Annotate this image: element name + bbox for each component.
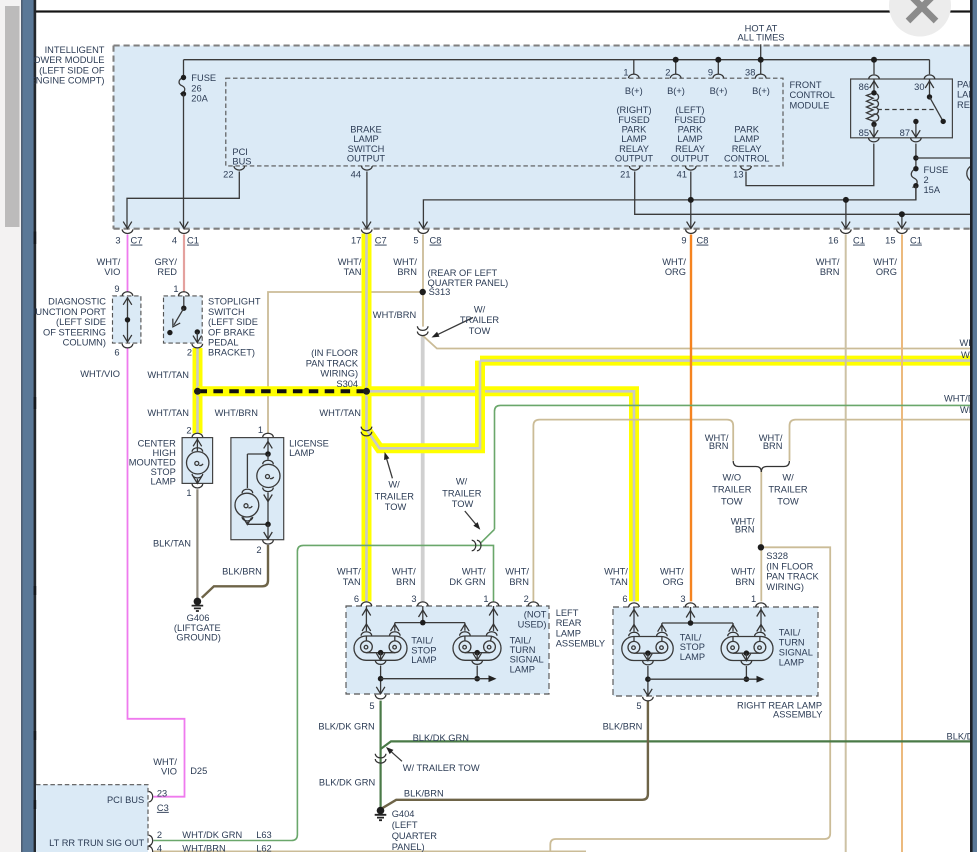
svg-text:9: 9 bbox=[681, 236, 686, 246]
svg-text:BRN: BRN bbox=[397, 267, 417, 277]
wire BLK/DK GRN left lamp pin5 to ground G404 bbox=[380, 701, 382, 807]
arrow up CHMSL top bbox=[193, 439, 202, 446]
svg-text:LAMP: LAMP bbox=[411, 655, 436, 665]
connector cap left lamp pin1 bbox=[488, 602, 499, 606]
connector cap right lamp pin1 bbox=[756, 603, 767, 607]
svg-text:ASSEMBLY: ASSEMBLY bbox=[773, 710, 822, 720]
svg-text:1: 1 bbox=[173, 284, 178, 294]
svg-text:POWER MODULE: POWER MODULE bbox=[27, 55, 104, 65]
splice dot S313 bbox=[420, 289, 426, 295]
splice dot S328 bbox=[758, 544, 764, 550]
left rear lamp assembly box bbox=[346, 606, 549, 694]
wire 87 branch to page edge bbox=[916, 157, 971, 159]
svg-text:BLK/BRN: BLK/BRN bbox=[222, 567, 262, 577]
wire WHT/BRN left lamp pin2 not used branch bbox=[533, 420, 733, 602]
PCI connector pin2 bbox=[149, 835, 153, 845]
pin number 15 C1 bbox=[885, 236, 922, 246]
connector cup C7-3 bbox=[122, 229, 133, 233]
junction dot right pin3 bbox=[688, 620, 694, 626]
svg-text:TRAILER: TRAILER bbox=[768, 485, 808, 495]
svg-text:17: 17 bbox=[351, 236, 361, 246]
svg-text:LICENSE: LICENSE bbox=[289, 438, 329, 448]
arrow down license bulb2 bbox=[243, 518, 252, 525]
svg-text:W/ TRAILER TOW: W/ TRAILER TOW bbox=[403, 763, 480, 773]
label front control module bbox=[790, 80, 835, 110]
svg-text:STOP: STOP bbox=[411, 645, 436, 655]
arrow down relay pin85 bbox=[870, 130, 879, 137]
connector cup license pin2 bbox=[263, 540, 274, 544]
junction dot license top bbox=[265, 451, 271, 457]
svg-text:BLK/DK GRN: BLK/DK GRN bbox=[319, 777, 375, 787]
label wire WHT/ORG right lamp bbox=[660, 567, 684, 587]
stoplight switch output lead bbox=[196, 332, 198, 343]
label w trailer tow brace bbox=[768, 473, 808, 507]
left turn bulb bottom cup bbox=[472, 660, 483, 664]
svg-text:WHT/: WHT/ bbox=[731, 567, 755, 577]
label stoplight switch bbox=[208, 297, 261, 358]
arrow up right pin1 upper bbox=[757, 610, 766, 617]
svg-text:MOUNTED: MOUNTED bbox=[129, 458, 176, 468]
svg-text:TOW: TOW bbox=[469, 326, 491, 336]
arrow up left pin3 bbox=[419, 610, 428, 617]
relay coil lead 86 bbox=[873, 79, 875, 93]
junction dot bus relay86 bbox=[871, 57, 877, 63]
svg-text:CONTROL: CONTROL bbox=[724, 154, 769, 164]
scrollbar thumb bbox=[5, 6, 20, 227]
svg-text:S313: S313 bbox=[429, 287, 451, 297]
svg-text:9: 9 bbox=[114, 284, 119, 294]
svg-text:TURN: TURN bbox=[510, 645, 536, 655]
svg-text:BLK/BRN: BLK/BRN bbox=[603, 722, 643, 732]
relay actuation dashed link bbox=[878, 109, 935, 111]
svg-text:TOW: TOW bbox=[385, 502, 407, 512]
license bulb1 lead bbox=[267, 454, 269, 460]
svg-text:G404: G404 bbox=[392, 809, 415, 819]
connector cup C7-17 bbox=[361, 229, 372, 233]
license bulb1 lead bottom bbox=[267, 493, 269, 525]
right lamp pin3 lead bbox=[662, 607, 733, 631]
label pci bus internal bbox=[232, 147, 251, 167]
splice dot S304 right bbox=[363, 388, 370, 395]
junction dot right turn bulb bbox=[744, 650, 750, 656]
right tail turn bulb terminal cap2 bbox=[755, 632, 766, 636]
junction dot bus pin38 bbox=[758, 57, 764, 63]
wire GRY/RED C1-4 to stoplight switch pin1 bbox=[183, 235, 185, 293]
svg-text:PANEL): PANEL) bbox=[392, 842, 425, 852]
wire BLK/BRN right lamp pin5 to ground G404 bbox=[382, 701, 648, 809]
svg-text:C3: C3 bbox=[157, 803, 169, 813]
arrow up right pin3 bbox=[686, 611, 695, 618]
wire WHT/TAN highlighted S304 to right lamp pin6 bbox=[367, 391, 635, 601]
close button X bbox=[908, 0, 936, 21]
right lamp ground bus arrow bbox=[757, 676, 765, 683]
svg-text:41: 41 bbox=[677, 170, 687, 180]
label fuse 2 bbox=[924, 165, 949, 195]
svg-text:WHT/: WHT/ bbox=[816, 257, 840, 267]
arrow down C8-9 bbox=[687, 222, 696, 229]
arrow up left stop terminal2 bbox=[391, 624, 400, 631]
svg-text:WHT/TAN: WHT/TAN bbox=[147, 408, 189, 418]
label w-o trailer tow bbox=[712, 473, 752, 507]
svg-text:2: 2 bbox=[187, 347, 192, 357]
junction dot left turn bottom bbox=[474, 676, 480, 682]
license bulb2 lead bottom bbox=[247, 522, 268, 524]
svg-text:(LEFT SIDE OF: (LEFT SIDE OF bbox=[39, 65, 105, 75]
right lamp pin1 lead bbox=[760, 607, 762, 632]
annotation arrow G404 trailer tow connector bbox=[386, 747, 402, 761]
wire WHT/ORG C1-15 down bbox=[901, 235, 903, 852]
label wire WHT/VIO top bbox=[97, 257, 121, 277]
svg-text:L63: L63 bbox=[256, 830, 272, 840]
svg-text:C1: C1 bbox=[910, 236, 922, 246]
arrow up relay pin30 bbox=[925, 81, 934, 88]
connector cap FCM pin2 bbox=[670, 74, 681, 78]
relay box bbox=[851, 79, 953, 138]
arrow down right pin5 bbox=[644, 689, 653, 696]
circuit breaker at page edge bbox=[967, 165, 977, 182]
svg-text:S304: S304 bbox=[336, 379, 358, 389]
svg-text:B(+): B(+) bbox=[667, 86, 685, 96]
svg-text:3: 3 bbox=[680, 594, 685, 604]
svg-text:TAN: TAN bbox=[344, 267, 362, 277]
gutter shade bbox=[21, 0, 23, 852]
svg-text:3: 3 bbox=[411, 594, 416, 604]
svg-text:(IN FLOOR: (IN FLOOR bbox=[311, 348, 358, 358]
relay switch common lead 30 bbox=[927, 79, 932, 100]
svg-text:W/: W/ bbox=[474, 304, 486, 314]
svg-text:WHT/: WHT/ bbox=[662, 257, 686, 267]
svg-text:PEDAL: PEDAL bbox=[208, 338, 239, 348]
connector cap diagnostic port pin9 bbox=[122, 292, 133, 296]
left stop bulb lead to pin5 bbox=[380, 666, 382, 694]
brace trailer tow options bbox=[733, 461, 789, 472]
junction dot bus pin2 bbox=[673, 57, 679, 63]
svg-text:COLUMN): COLUMN) bbox=[63, 338, 106, 348]
arrow up left turn terminal1 bbox=[461, 624, 470, 631]
stoplight switch box bbox=[164, 296, 203, 343]
label wire WHT/BRN below brace bbox=[731, 516, 755, 534]
svg-text:L62: L62 bbox=[256, 844, 272, 852]
svg-text:BRACKET): BRACKET) bbox=[208, 348, 255, 358]
svg-text:(IN FLOOR: (IN FLOOR bbox=[766, 561, 813, 571]
annotation arrow S313 connector bbox=[432, 318, 474, 338]
wire FCM pin41 to C8-9 bbox=[690, 172, 692, 229]
svg-text:S328: S328 bbox=[766, 551, 788, 561]
svg-text:1: 1 bbox=[483, 594, 488, 604]
fuse 26 element bbox=[179, 75, 186, 97]
inline connector WHT/DK GRN trailer tow bbox=[472, 540, 481, 551]
arrow down left turn bulb bbox=[473, 653, 482, 660]
arrow up right pin6 upper bbox=[630, 610, 639, 617]
svg-text:SWITCH: SWITCH bbox=[348, 144, 385, 154]
svg-text:FUSE: FUSE bbox=[191, 73, 216, 83]
left tail stop bulb body bbox=[354, 636, 407, 661]
svg-text:ORG: ORG bbox=[876, 267, 897, 277]
right rear lamp assembly box bbox=[613, 607, 818, 696]
right tail turn bulb terminal cap1 bbox=[728, 632, 739, 636]
label not used bbox=[518, 610, 547, 630]
svg-text:BRN: BRN bbox=[735, 525, 755, 535]
svg-text:2: 2 bbox=[157, 830, 162, 840]
pin number 5 C8 bbox=[413, 236, 441, 246]
svg-text:WHT/: WHT/ bbox=[338, 257, 362, 267]
annotation arrow yellow trailer tow connector bbox=[384, 452, 392, 478]
svg-text:LAMP: LAMP bbox=[510, 664, 535, 674]
connector cap FCM pin1 bbox=[629, 74, 640, 78]
wire relay 87 to fuse 2 bbox=[913, 144, 918, 169]
svg-text:1: 1 bbox=[186, 488, 191, 498]
front control module box bbox=[226, 78, 783, 166]
label left fused park lamp relay output bbox=[671, 105, 710, 164]
svg-text:WHT/BRN: WHT/BRN bbox=[215, 408, 258, 418]
svg-text:BRN: BRN bbox=[709, 441, 729, 451]
arrow up right pin6 lower bbox=[630, 625, 639, 632]
wire BLK/BRN license lamp pin2 to ground G406 bbox=[202, 545, 268, 598]
svg-text:C7: C7 bbox=[375, 236, 387, 246]
connector cup FCM pin22 bbox=[234, 166, 245, 170]
svg-text:38: 38 bbox=[745, 68, 755, 78]
svg-text:6: 6 bbox=[622, 594, 627, 604]
wire WHT/VIO diagnostic port pin6 to PCI bus pin23 bbox=[128, 348, 185, 797]
svg-text:MODULE: MODULE bbox=[790, 100, 830, 110]
left lamp ground bus arrow bbox=[489, 675, 497, 682]
svg-text:SWITCH: SWITCH bbox=[208, 307, 245, 317]
license bulb2 cup bottom bbox=[242, 517, 253, 521]
svg-text:85: 85 bbox=[859, 128, 869, 138]
svg-text:WHT/: WHT/ bbox=[505, 567, 529, 577]
svg-text:(REAR OF LEFT: (REAR OF LEFT bbox=[428, 268, 498, 278]
wire WHT/BRN gray S313 branch to left lamp pin3 bbox=[421, 336, 425, 601]
svg-text:WHT/: WHT/ bbox=[873, 257, 897, 267]
left turn bulb output bbox=[476, 653, 478, 660]
license bulb1 bbox=[257, 464, 280, 487]
inline connector WHT/TAN trailer tow bbox=[361, 427, 372, 436]
label wire WHT/BRN right lamp bbox=[731, 567, 755, 587]
svg-text:WHT/TAN: WHT/TAN bbox=[147, 370, 189, 380]
arrow down CHMSL bottom bbox=[193, 476, 202, 483]
svg-text:2: 2 bbox=[924, 175, 929, 185]
connector cap CHMSL pin2 bbox=[192, 433, 203, 437]
wire bus drop to pin9 bbox=[717, 60, 719, 74]
svg-text:(LIFTGATE: (LIFTGATE bbox=[174, 623, 221, 633]
svg-text:TOW: TOW bbox=[452, 499, 474, 509]
svg-text:D25: D25 bbox=[190, 766, 207, 776]
stoplight switch blade bbox=[174, 308, 184, 325]
junction dot output run pin15 bbox=[899, 211, 905, 217]
svg-text:4: 4 bbox=[157, 844, 162, 852]
wire fuse 26 to C1-4 bbox=[183, 94, 185, 229]
arrow down C8-5 bbox=[419, 222, 428, 229]
pci bus module box bbox=[36, 785, 148, 852]
PCI connector pin23 bbox=[149, 792, 153, 802]
label tail turn signal lamp right bbox=[779, 627, 813, 667]
svg-text:CENTER: CENTER bbox=[138, 438, 177, 448]
label park lamp relay bbox=[957, 80, 977, 110]
junction dot left stop bulb bbox=[378, 650, 384, 656]
label wire WHT/ORG pin9 bbox=[662, 257, 686, 277]
svg-text:LAMP: LAMP bbox=[680, 652, 705, 662]
label wire WHT/TAN left lamp bbox=[337, 567, 361, 587]
svg-text:2: 2 bbox=[186, 426, 191, 436]
svg-text:5: 5 bbox=[369, 701, 374, 711]
connector cap stoplight pin1 bbox=[179, 292, 190, 296]
svg-text:TOW: TOW bbox=[777, 497, 799, 507]
svg-text:FRONT: FRONT bbox=[790, 80, 822, 90]
arrow down license bulb1 bbox=[264, 495, 273, 502]
pin number 4 C1 bbox=[172, 236, 199, 246]
svg-text:W/: W/ bbox=[388, 479, 400, 489]
license bulb1 cup bottom bbox=[263, 488, 274, 492]
svg-text:2: 2 bbox=[665, 68, 670, 78]
svg-text:WHT/VIO: WHT/VIO bbox=[80, 369, 120, 379]
svg-text:SIGNAL: SIGNAL bbox=[779, 648, 813, 658]
arrow down C7-17 bbox=[362, 222, 371, 229]
label wire WHT/BRN pin16 bbox=[816, 257, 840, 277]
wire WHT/BRN C8-5 to splice S313 bbox=[422, 235, 424, 327]
relay coil bbox=[867, 90, 879, 127]
license lamp box bbox=[231, 438, 284, 540]
connector cup left lamp pin5 bbox=[375, 695, 386, 699]
svg-text:PAN TRACK: PAN TRACK bbox=[306, 358, 359, 368]
svg-text:87: 87 bbox=[900, 128, 910, 138]
left border marks bbox=[33, 232, 36, 810]
svg-text:CONTROL: CONTROL bbox=[790, 90, 835, 100]
label wire GRY/RED bbox=[154, 257, 177, 277]
pin number 9 C8 bbox=[681, 236, 708, 246]
connector cup relay pin85 bbox=[869, 138, 880, 142]
svg-text:4: 4 bbox=[172, 236, 177, 246]
svg-text:QUARTER: QUARTER bbox=[392, 831, 438, 841]
arrow up right stop terminal2 bbox=[658, 625, 667, 632]
svg-text:TAIL/: TAIL/ bbox=[680, 633, 702, 643]
svg-text:VIO: VIO bbox=[161, 767, 177, 777]
right tail stop bulb terminal cap2 bbox=[657, 632, 668, 636]
svg-text:WHT/: WHT/ bbox=[660, 567, 684, 577]
center high mounted stop lamp box bbox=[182, 438, 213, 484]
connector cap right lamp pin6 bbox=[629, 603, 640, 607]
relay switch blade bbox=[930, 97, 946, 124]
annotation arrow green trailer tow connector bbox=[465, 511, 481, 530]
license bulb2 bbox=[235, 493, 259, 517]
svg-text:RELAY: RELAY bbox=[675, 144, 705, 154]
pin number 3 C7 bbox=[115, 236, 142, 246]
svg-text:WHT/BRN: WHT/BRN bbox=[182, 844, 225, 852]
svg-text:15: 15 bbox=[885, 236, 895, 246]
diagnostic port internal wire bbox=[127, 297, 129, 342]
left stop bulb bottom cup bbox=[375, 660, 386, 664]
svg-text:TRAILER: TRAILER bbox=[375, 492, 415, 502]
svg-text:ENGINE COMPT): ENGINE COMPT) bbox=[30, 76, 105, 86]
license internal lead top bbox=[247, 438, 268, 488]
svg-text:WIRING): WIRING) bbox=[320, 369, 358, 379]
arrow down license pin2 bbox=[264, 532, 273, 539]
svg-text:(LEFT: (LEFT bbox=[392, 820, 418, 830]
label w trailer tow yellow branch bbox=[375, 479, 415, 512]
connector cup CHMSL pin1 bbox=[192, 484, 203, 488]
wire WHT/TAN highlighted C7-17 to left lamp pin6 bbox=[362, 234, 372, 602]
label park lamp relay control bbox=[724, 125, 769, 164]
label left rear lamp assembly bbox=[556, 608, 605, 648]
svg-text:WHT/: WHT/ bbox=[97, 257, 121, 267]
right tail stop bulb terminal cap1 bbox=[629, 632, 640, 636]
arrow up left pin6 upper bbox=[362, 609, 371, 616]
svg-text:STOP: STOP bbox=[680, 642, 705, 652]
arrow up right pin1 lower bbox=[757, 625, 766, 632]
svg-text:LAMP: LAMP bbox=[556, 628, 581, 638]
arrow up left pin1 lower bbox=[489, 624, 498, 631]
left lamp ground bus bbox=[381, 678, 490, 680]
label hot at all times bbox=[737, 23, 784, 42]
arrow down stoplight pin2 bbox=[193, 336, 202, 343]
ground G406 bbox=[192, 598, 204, 611]
connector cap right lamp pin3 bbox=[685, 603, 696, 607]
ground G404 bbox=[375, 807, 387, 820]
connector cup C1-16 bbox=[841, 229, 852, 233]
svg-text:30: 30 bbox=[914, 82, 924, 92]
splice dot S304 left bbox=[194, 388, 201, 395]
arrow down left pin5 bbox=[376, 687, 385, 694]
inline connector BLK/DK GRN trailer tow bbox=[375, 754, 386, 763]
svg-text:PCI: PCI bbox=[232, 147, 248, 157]
svg-text:OUTPUT: OUTPUT bbox=[615, 154, 654, 164]
svg-text:REAR: REAR bbox=[556, 618, 582, 628]
wire bus to fuse 26 bbox=[183, 60, 185, 78]
connector cap relay pin86 bbox=[869, 75, 880, 79]
left stop bulb output bbox=[380, 653, 382, 660]
inline connector S313 trailer tow bbox=[417, 326, 428, 335]
svg-text:TAN: TAN bbox=[343, 577, 361, 587]
svg-text:FUSED: FUSED bbox=[618, 115, 650, 125]
right lamp pin6 lead bbox=[633, 607, 635, 632]
svg-text:TOW: TOW bbox=[721, 497, 743, 507]
connector cup FCM pin44 bbox=[362, 166, 373, 170]
wire FCM pin13 to relay pin85 bbox=[746, 144, 874, 186]
svg-text:TAIL/: TAIL/ bbox=[411, 636, 433, 646]
label wire WHT/TAN right lamp bbox=[604, 567, 628, 587]
label wire WHT/BRN top bbox=[393, 257, 417, 277]
CHMSL bulb terminal cap top bbox=[192, 448, 203, 452]
svg-text:LAMP: LAMP bbox=[353, 134, 378, 144]
pin number 16 C1 bbox=[828, 236, 865, 246]
arrow up relay pin86 bbox=[870, 81, 879, 88]
label intelligent power module bbox=[27, 45, 105, 86]
connector cap FCM pin38 bbox=[755, 74, 766, 78]
license bulb1 terminal cap bbox=[263, 460, 274, 464]
svg-text:TRAILER: TRAILER bbox=[442, 489, 482, 499]
svg-text:86: 86 bbox=[859, 82, 869, 92]
connector cup stoplight pin2 bbox=[192, 344, 203, 348]
wire drop to C1-16 bbox=[845, 200, 847, 229]
wire fuse 2 to output run bbox=[915, 186, 917, 200]
svg-text:C1: C1 bbox=[187, 236, 199, 246]
svg-text:23: 23 bbox=[157, 789, 167, 799]
wire WHT/BRN C1-16 down bbox=[845, 235, 847, 852]
junction dot left lamp bottom bbox=[378, 676, 384, 682]
label wire WHT/BRN left lamp pin3 bbox=[392, 567, 416, 587]
wire WHT/TAN highlighted stoplight pin2 to CHMSL bbox=[193, 348, 203, 433]
junction dot right turn bottom bbox=[744, 676, 750, 682]
wire WHT/TAN highlighted trailer tow branch bbox=[367, 361, 972, 449]
relay switch output lead 87 bbox=[913, 119, 918, 138]
svg-text:16: 16 bbox=[828, 236, 838, 246]
svg-text:OUTPUT: OUTPUT bbox=[671, 154, 710, 164]
svg-text:VIO: VIO bbox=[104, 267, 120, 277]
svg-text:WHT/: WHT/ bbox=[462, 567, 486, 577]
svg-text:2: 2 bbox=[524, 594, 529, 604]
svg-text:LAMP: LAMP bbox=[677, 134, 702, 144]
wire fused output run fuse2 to C8-5 bbox=[423, 186, 916, 229]
label tail stop lamp right bbox=[680, 633, 705, 662]
